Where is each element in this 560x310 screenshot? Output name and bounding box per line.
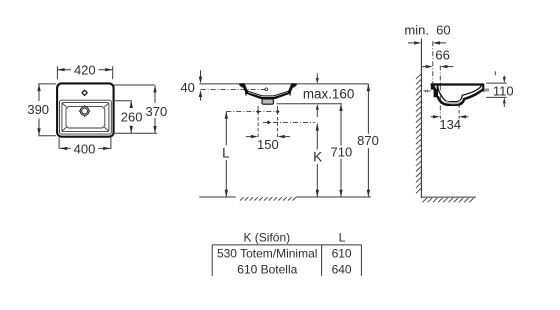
svg-text:400: 400 xyxy=(74,141,96,156)
svg-text:min. 60: min. 60 xyxy=(404,23,450,38)
basin side: back mass xyxy=(431,83,438,97)
arrow 260 bottom xyxy=(130,126,133,133)
arrow 66 left xyxy=(426,65,433,68)
basin side: front edge xyxy=(482,84,484,92)
floor line right segment xyxy=(296,196,371,198)
node diamond siphon xyxy=(266,120,270,124)
dimension 40 xyxy=(200,70,202,100)
basin side: drain gray band xyxy=(446,100,461,103)
dimension 110 xyxy=(486,83,506,97)
basin section right rim tick xyxy=(289,93,292,96)
arrow 390 top xyxy=(37,84,40,91)
arrow 870 bottom xyxy=(367,190,370,197)
basin side: bowl bottom thick outline xyxy=(438,89,484,105)
basin outer rim (top view) xyxy=(57,83,114,136)
svg-text:260: 260 xyxy=(121,109,143,124)
basin side: overflow tab xyxy=(484,88,489,91)
svg-text:530 Totem/Minimal: 530 Totem/Minimal xyxy=(217,247,318,261)
wall hatching xyxy=(416,74,422,194)
table top border xyxy=(212,244,361,246)
bowl corner diagonal SW xyxy=(62,127,66,131)
table left border xyxy=(211,245,213,276)
faucet hole (top view) xyxy=(81,90,87,96)
rim top extension line xyxy=(200,83,369,85)
floor line (side view) xyxy=(421,196,476,198)
dimension 710 line xyxy=(340,104,342,197)
floor hatching (side view) xyxy=(423,198,474,202)
svg-text:K: K xyxy=(313,149,322,164)
svg-text:40: 40 xyxy=(180,80,194,95)
arrow min60 left xyxy=(414,41,421,44)
svg-text:870: 870 xyxy=(357,133,379,148)
drain-bottom extension line xyxy=(277,103,342,105)
arrow max160 down xyxy=(316,78,319,84)
arrow 390 bottom xyxy=(37,128,40,135)
110 top tick xyxy=(494,71,496,75)
basin section left rim tick xyxy=(244,93,247,96)
node diamond right (supply) xyxy=(276,110,280,114)
arrow 400 right xyxy=(103,147,110,150)
basin side: back mass notch xyxy=(434,85,436,89)
svg-text:420: 420 xyxy=(74,62,96,77)
dashed vertical left (150) xyxy=(257,106,259,139)
arrow 110 up xyxy=(503,97,506,103)
dimension 870 line xyxy=(367,84,369,197)
svg-text:134: 134 xyxy=(439,117,461,132)
svg-text:66: 66 xyxy=(435,48,449,63)
wall line xyxy=(420,39,422,199)
arrow 40 up xyxy=(199,90,202,97)
arrow 40 down xyxy=(199,77,202,84)
bowl step edge (top view) xyxy=(62,103,109,132)
basin section left rim xyxy=(239,83,262,99)
overflow hole circle xyxy=(265,88,268,91)
dimension K line xyxy=(316,123,318,197)
fixing bolt ticks xyxy=(426,90,428,93)
arrow K bottom xyxy=(316,190,319,197)
arrow 400 left xyxy=(60,147,67,150)
arrow 710 bottom xyxy=(339,190,342,197)
basin section drain top xyxy=(261,97,274,99)
bowl corner diagonal NE xyxy=(104,103,108,107)
bowl corner diagonal SE xyxy=(104,127,108,131)
svg-text:150: 150 xyxy=(257,137,279,152)
dimension 66 xyxy=(422,66,454,68)
svg-text:610: 610 xyxy=(332,247,352,261)
svg-text:370: 370 xyxy=(146,104,168,119)
svg-text:max.160: max.160 xyxy=(303,87,354,102)
siphon centerline (dash-dot) xyxy=(263,121,315,123)
tap offset centerline A (dash-dot) xyxy=(432,41,434,84)
bowl floor (top view, chamfered rect) xyxy=(66,107,105,128)
dimension min.60 xyxy=(408,42,446,44)
arrow 66 right xyxy=(440,65,447,68)
table divider xyxy=(321,245,323,276)
supply centerline (dash-dot) xyxy=(226,111,277,113)
fixing bolt xyxy=(424,90,432,92)
dimension 370 (right outer) xyxy=(114,85,156,133)
bowl corner diagonal NW xyxy=(62,103,66,107)
basin side: rim top xyxy=(431,83,484,85)
arrow min60 right xyxy=(433,41,440,44)
dimension 420 (top) xyxy=(57,66,112,79)
arrow max160 up xyxy=(316,104,319,110)
fixing centerline B (dash-dot) xyxy=(439,66,441,120)
dimension L line xyxy=(225,112,227,197)
drain (top view) xyxy=(79,105,90,116)
tap centerline (dash-dot) xyxy=(201,89,266,91)
svg-text:390: 390 xyxy=(27,102,49,117)
arrow 150 left xyxy=(251,135,258,138)
dimension 134 xyxy=(431,116,469,118)
svg-text:L: L xyxy=(339,231,346,245)
dimension 390 (left) xyxy=(38,84,56,136)
arrow 134 left xyxy=(433,115,440,118)
arrow K top xyxy=(316,123,319,130)
floor hatching (middle) xyxy=(240,197,296,200)
arrow 870 top xyxy=(367,84,370,91)
dimension 400 (bottom) xyxy=(59,138,111,149)
dashed vertical right (150) xyxy=(277,106,279,139)
svg-text:710: 710 xyxy=(331,145,353,160)
arrow L top xyxy=(225,112,228,119)
arrow 134 right xyxy=(459,115,466,118)
node diamond left (supply) xyxy=(256,110,260,114)
dimension 150 xyxy=(246,136,290,138)
dimension 260 (right inner) xyxy=(113,101,157,133)
arrow 710 top xyxy=(339,104,342,111)
basin section right rim xyxy=(274,83,297,99)
basin section bowl inner line xyxy=(242,85,293,96)
arrow 420 left xyxy=(57,68,64,71)
floor line left segment xyxy=(199,196,235,198)
arrow 110 down xyxy=(503,77,506,83)
arrow L bottom xyxy=(225,190,228,197)
arrow 260 top xyxy=(130,101,133,108)
arrow 370 bottom xyxy=(153,126,156,133)
basin section drain body xyxy=(262,99,273,104)
svg-text:L: L xyxy=(222,145,230,160)
arrow 420 right xyxy=(105,68,112,71)
arrow 370 top xyxy=(153,85,156,92)
bowl outer edge (top view) xyxy=(60,100,112,134)
svg-text:640: 640 xyxy=(332,262,352,276)
basin side: bowl inner outline xyxy=(438,85,482,101)
svg-text:610 Botella: 610 Botella xyxy=(237,262,297,276)
table right border xyxy=(360,245,362,276)
arrow 150 right xyxy=(278,135,285,138)
svg-text:K (Sifón): K (Sifón) xyxy=(243,231,290,245)
svg-text:110: 110 xyxy=(493,84,514,99)
drain dashed line C xyxy=(458,105,460,120)
